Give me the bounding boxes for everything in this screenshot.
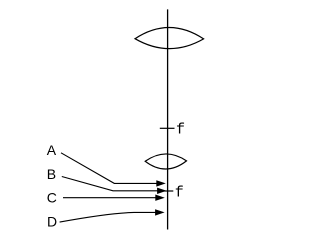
svg-text:B: B — [47, 166, 56, 182]
svg-text:A: A — [47, 142, 57, 158]
ray D wire — [60, 212, 158, 222]
ray C arrowhead — [155, 195, 165, 201]
svg-text:f: f — [175, 185, 184, 202]
svg-text:C: C — [47, 190, 57, 206]
ray B wire — [62, 177, 160, 191]
ray B arrowhead — [157, 188, 167, 194]
svg-text:D: D — [47, 214, 57, 230]
focal tick f1 — [160, 127, 175, 129]
ray D arrowhead — [155, 209, 165, 215]
lens L1 (biconvex, top) — [135, 27, 204, 48]
focal tick f2 — [162, 190, 174, 192]
svg-text:f: f — [176, 122, 185, 139]
optical axis — [167, 9, 169, 229]
ray A wire — [61, 153, 159, 184]
ray A arrowhead — [156, 180, 166, 186]
ray C wire — [63, 197, 158, 199]
lens L2 (biconvex, bottom) — [145, 154, 186, 169]
